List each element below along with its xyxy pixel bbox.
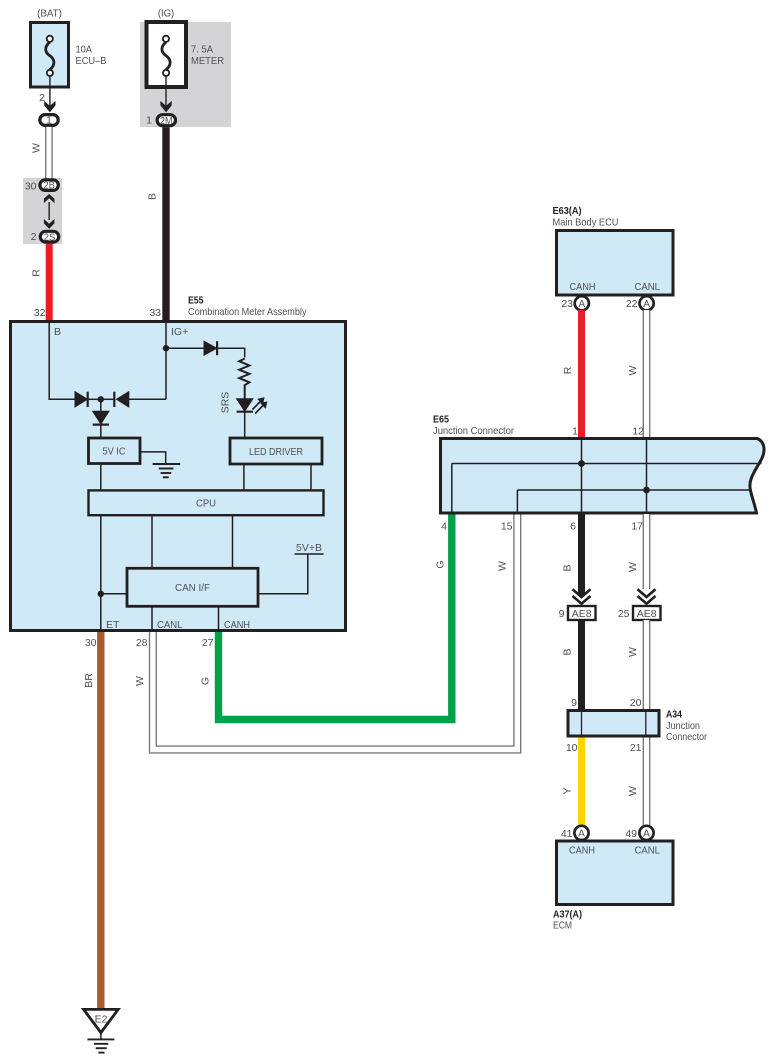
label A34 Junction Connector [666,709,707,744]
svg-text:W: W [627,365,639,375]
E55 Combination Meter Assembly box [11,322,346,631]
wire W white from E65 pin 17 to AE8 (25) [643,514,651,589]
arrow into connector 2M [160,101,171,113]
connector oval 2S [40,231,58,243]
wire ET column [100,515,102,631]
junction node bus1 [578,460,585,467]
chevron arrows into AE8 (left) [573,589,591,603]
wire W white CANL from pin 28 to E65 pin 15 [153,514,517,750]
wire W white CANL from E63 to E65 pin 12 [643,310,651,438]
svg-text:23: 23 [561,298,573,310]
svg-text:2B: 2B [43,181,55,192]
wire fuse1 to connector 1 [49,76,51,106]
svg-text:5V IC: 5V IC [103,446,126,458]
pin label CANL (A37) [635,845,661,857]
wire color label G [200,677,212,685]
connector oval 1 [40,115,58,127]
svg-text:Y: Y [562,787,574,794]
connector oval 2B [40,180,58,192]
block LED DRIVER [230,438,322,464]
junction node diode pair [98,396,104,402]
svg-text:Main Body ECU: Main Body ECU [553,217,619,229]
pin 17 label [631,521,643,533]
diode D2 (from IG+) [101,392,129,407]
pin label CANL (E63) [635,281,661,293]
pin 20 label [630,697,642,709]
pin 4 internal line [451,464,453,514]
diode D4 (to SRS led branch) [204,341,217,355]
ground E2 [84,1009,119,1052]
svg-text:ECM: ECM [553,920,572,932]
svg-text:A: A [578,299,585,310]
svg-text:CPU: CPU [196,498,216,510]
chevron arrows into AE8 (right) [638,589,656,603]
svg-text:BR: BR [83,673,95,688]
svg-text:21: 21 [630,742,642,754]
pin 1 label [146,115,152,127]
wire color label BR [83,673,95,688]
pin 30 label [25,181,37,193]
svg-text:W: W [627,786,639,796]
pin 33 label [149,307,161,319]
wire D4 to resistor [217,348,245,357]
svg-text:METER: METER [191,55,224,67]
pin 27 label [202,637,214,649]
node IG+ pin 33 internal line [129,321,166,399]
svg-text:17: 17 [631,521,643,533]
fuse F1 10A ECU-B (BAT) [31,23,69,88]
svg-text:CANL: CANL [157,619,183,631]
pin 2 label [39,92,45,104]
svg-text:30: 30 [25,181,37,193]
wire B black from E65 pin 6 to AE8 [578,514,585,596]
gray background block around IG fuse [140,22,231,127]
svg-text:41: 41 [561,828,573,840]
label B [54,326,61,338]
label 7.5A METER [191,44,224,68]
junction node IG+ branch [163,345,169,351]
diode D1 (from B) [75,392,101,407]
wires LED DRIVER to CPU [244,464,311,490]
svg-text:1: 1 [146,115,152,127]
svg-text:R: R [31,269,43,277]
ground symbol (5V IC) [141,452,181,477]
svg-text:G: G [435,560,447,568]
pin 49 connector A [625,826,653,840]
node B pin 32 internal line [49,321,75,399]
wire color label W [134,676,146,686]
label (BAT) [37,8,62,20]
label (IG) [158,8,174,20]
label E55 Combination Meter Assembly [188,295,307,319]
label 10A ECU-B [76,44,107,68]
svg-text:A34: A34 [666,709,682,721]
label A37(A) ECM [553,909,582,932]
A37(A) ECM box [557,841,674,905]
pin 6 label [570,521,576,533]
wire junction to CAN I/F [101,593,127,595]
pin 1-6 internal line [581,439,583,514]
pin 28 label [136,637,148,649]
pin label CANH (E63) [570,281,596,293]
svg-text:1: 1 [572,426,578,438]
svg-text:W: W [31,143,43,153]
svg-text:25: 25 [618,608,630,620]
svg-text:A: A [643,829,650,840]
wire color label W [627,786,639,796]
svg-text:Combination Meter Assembly: Combination Meter Assembly [188,306,307,318]
pin 41 connector A [561,826,589,840]
wire IG+ to diode D4 [166,347,204,349]
wire G green CANH from pin 27 to E65 pin 4 [219,514,452,720]
svg-text:W: W [497,561,509,571]
svg-text:AE8: AE8 [637,608,657,620]
fuse F2 7.5A METER (IG) [147,22,187,87]
svg-text:9: 9 [559,608,565,620]
pin 12-17 internal line [646,439,648,514]
wire color label W (E65 pin 15) [497,561,509,571]
svg-text:1: 1 [46,116,52,127]
pin 2 label [31,231,37,243]
pin label ET [106,619,120,631]
pin 15 internal line [516,490,518,513]
label E63(A) Main Body ECU [553,205,619,229]
pin 10 label [566,742,578,754]
wire color label Y [562,787,574,794]
wire W white from A34 pin 21 to A37 pin 49 [643,738,651,827]
pin 23 connector A [561,296,589,310]
svg-text:A: A [643,299,650,310]
label E65 Junction Connector [433,414,514,438]
svg-text:10A: 10A [76,44,93,56]
svg-text:W: W [627,647,639,657]
pin 22 connector A [626,296,654,310]
power node 5V+B [258,542,324,594]
svg-text:E63(A): E63(A) [553,205,582,217]
svg-text:LED DRIVER: LED DRIVER [249,446,303,458]
wire color label B [562,648,574,655]
wire color label W [627,562,639,572]
svg-text:AE8: AE8 [572,608,592,620]
svg-text:B: B [562,564,574,571]
wire B black from 2M to E55 pin 33 [162,127,169,321]
resistor R1 [239,359,249,399]
wire Y yellow from A34 pin 10 to A37 pin 41 [578,738,585,827]
wire color label G (E65 pin 4) [435,560,447,568]
wire LED to LED DRIVER [244,412,246,437]
label SRS [220,392,232,414]
svg-text:9: 9 [571,697,577,709]
connector AE8 (25) [618,606,661,620]
svg-text:6: 6 [570,521,576,533]
svg-text:B: B [562,648,574,655]
wires CPU to CAN I/F [152,515,233,568]
pin label CANH (A37) [569,845,595,857]
junction node bus2 [643,487,650,494]
svg-text:(IG): (IG) [158,8,174,20]
wire R red CANH from E63 to E65 pin 1 [578,310,585,438]
svg-text:W: W [134,676,146,686]
svg-text:B: B [54,326,61,338]
svg-text:12: 12 [632,426,644,438]
connector oval 2M [157,115,175,127]
arrow down to 2S [44,219,55,229]
pin label CANL [157,619,183,631]
pin 15 label [501,521,513,533]
pin 1 label [572,426,578,438]
E63(A) Main Body ECU box [557,231,674,296]
svg-text:49: 49 [625,828,637,840]
svg-text:CAN I/F: CAN I/F [175,582,210,594]
svg-text:20: 20 [630,697,642,709]
arrow up 2B [44,194,55,203]
svg-text:5V+B: 5V+B [296,542,322,554]
svg-text:33: 33 [149,307,161,319]
svg-text:10: 10 [566,742,578,754]
svg-text:2M: 2M [160,116,173,127]
wire fuse2 to connector 2M [165,76,167,106]
svg-text:CANL: CANL [635,281,661,293]
wire color label B [147,193,159,200]
wire color label W [627,365,639,375]
pin 32 label [34,307,46,319]
junction node ET / CAN I/F [98,591,104,597]
svg-text:15: 15 [501,521,513,533]
svg-text:2: 2 [31,231,37,243]
bus line 2 inside E65 [517,489,750,491]
wire color label W [31,143,43,153]
svg-text:ET: ET [106,619,120,631]
svg-text:4: 4 [441,521,447,533]
pin 12 label [632,426,644,438]
svg-text:Connector: Connector [666,731,707,743]
svg-text:(BAT): (BAT) [37,8,62,20]
wire 5V IC to CPU [100,464,102,490]
connector AE8 (9) [559,606,596,620]
E65 Junction Connector box (torn right edge) [441,439,765,514]
wire color label R [562,366,574,374]
svg-text:CANL: CANL [635,845,661,857]
svg-text:CANH: CANH [224,619,250,631]
svg-text:E2: E2 [95,1014,108,1026]
wire color label R [31,269,43,277]
svg-text:E65: E65 [433,414,449,426]
svg-text:G: G [200,677,212,685]
pin 21 label [630,742,642,754]
LED D5 SRS [237,398,267,414]
svg-text:27: 27 [202,637,214,649]
wire color label W [627,647,639,657]
pin 9 label [571,697,577,709]
svg-text:W: W [627,562,639,572]
svg-text:Junction Connector: Junction Connector [433,425,514,437]
svg-text:28: 28 [136,637,148,649]
wire W white AE8 to A34 pin 20 [643,620,651,710]
svg-text:2S: 2S [44,232,56,243]
svg-text:R: R [562,366,574,374]
block CPU [89,490,324,515]
arrow into connector 1 [44,101,55,113]
wire CANL from CAN I/F to pin 28 [151,606,153,631]
wire B black AE8 to A34 pin 9 [578,620,585,710]
wire W from connector 1 to 2B (white wire) [45,127,53,180]
svg-text:A: A [578,829,585,840]
svg-text:CANH: CANH [569,845,595,857]
block CAN I/F [127,568,258,606]
wire BR brown from pin 30 to ground E2 [97,632,104,1009]
svg-text:CANH: CANH [570,281,596,293]
gray background block around 2B/2S connectors [23,178,62,244]
svg-text:IG+: IG+ [171,326,188,338]
block 5V IC [89,438,141,464]
svg-text:E55: E55 [188,295,204,307]
svg-text:30: 30 [85,637,97,649]
wire between arrows [48,202,50,220]
svg-text:7. 5A: 7. 5A [191,44,213,56]
svg-text:22: 22 [626,298,638,310]
pin label CANH [224,619,250,631]
pin 30 label [85,637,97,649]
pin 4 label [441,521,447,533]
wire CANH from CAN I/F to pin 27 [218,606,220,631]
svg-text:ECU–B: ECU–B [76,55,107,67]
svg-text:32: 32 [34,307,46,319]
A34 Junction Connector box [568,711,659,737]
svg-text:B: B [147,193,159,200]
bus line 1 inside E65 [452,463,762,465]
diode D3 (down to 5V IC) [93,399,109,437]
wire color label B [562,564,574,571]
wire R red from 2S to E55 pin 32 [46,244,53,322]
label IG+ [171,326,188,338]
svg-text:SRS: SRS [220,392,232,414]
